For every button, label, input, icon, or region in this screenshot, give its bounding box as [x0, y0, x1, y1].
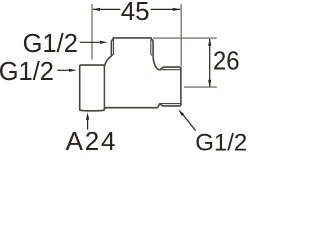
thread root line top	[160, 69, 181, 71]
cylinder right edge	[103, 67, 105, 109]
svg-text:G1/2: G1/2	[0, 58, 54, 86]
extension line right (45 dim)	[180, 4, 182, 66]
dimension line 26	[209, 39, 211, 87]
fitting body outline (tee fitting silhouette)	[80, 38, 181, 111]
svg-text:26: 26	[213, 45, 240, 75]
svg-text:45: 45	[121, 0, 150, 26]
extension line bottom (26 dim)	[184, 86, 217, 88]
thread root line bottom	[160, 103, 181, 105]
dimension line 45	[93, 8, 180, 10]
port inner chamfer line left	[112, 39, 113, 55]
svg-text:G1/2: G1/2	[23, 30, 78, 58]
port inner chamfer line right	[151, 39, 152, 55]
svg-text:G1/2: G1/2	[195, 130, 247, 154]
svg-text:A24: A24	[66, 126, 118, 154]
extension line top (26 dim)	[153, 37, 217, 39]
extension line left (45 dim)	[91, 4, 93, 60]
